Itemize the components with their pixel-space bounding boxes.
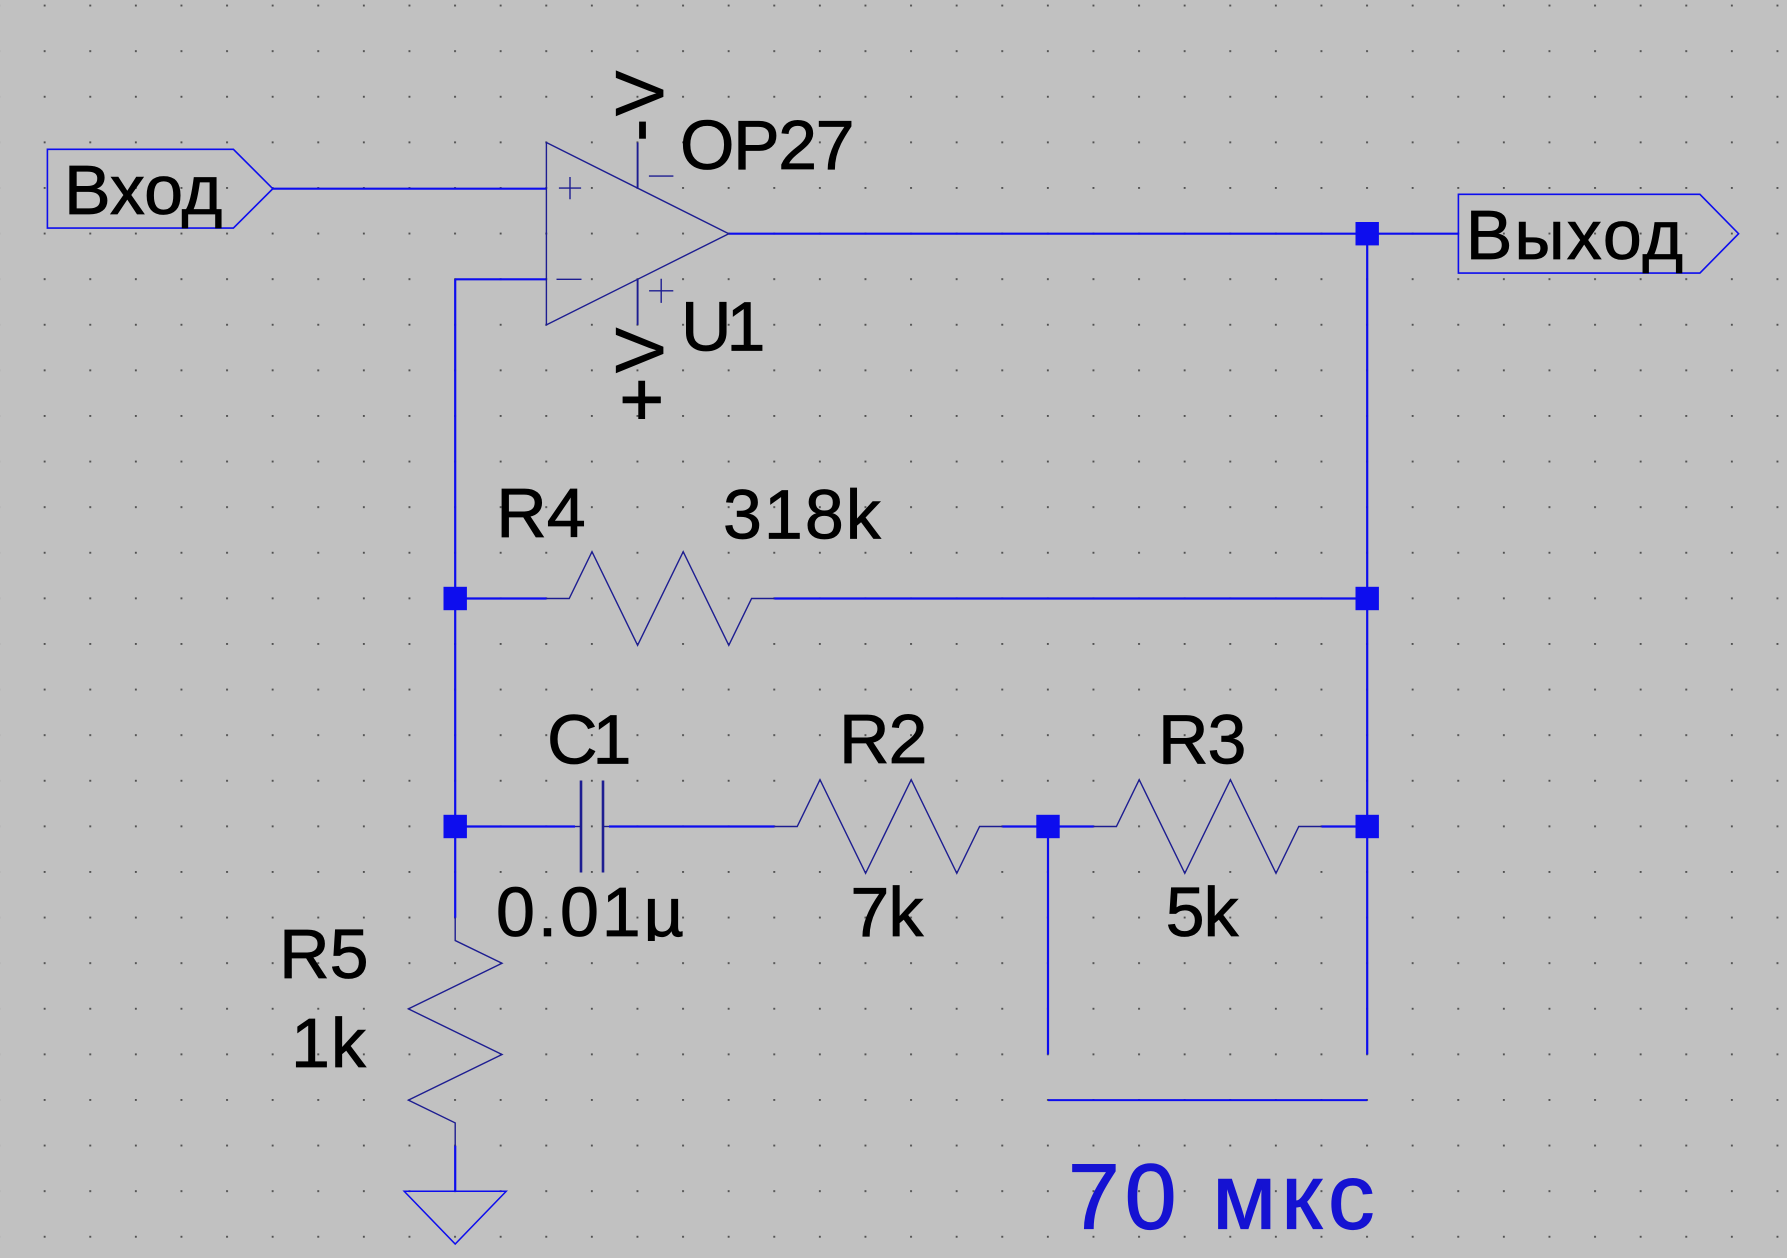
- wire: left vertical feedback bus x=455: [454, 279, 456, 917]
- op-amp U1 triangle body: [546, 143, 728, 325]
- svg-text:Выход: Выход: [1466, 196, 1685, 274]
- svg-text:70 мкс: 70 мкс: [1068, 1145, 1379, 1249]
- wire: R5 bottom lead to ground: [454, 1146, 456, 1192]
- op-amp V- pin name marker -: [649, 175, 674, 177]
- resistor R2: [774, 780, 1002, 874]
- annotation bracket line (70 мкс measure): [1048, 1099, 1367, 1101]
- wire: op-amp output to output port: [729, 233, 1459, 235]
- op-amp V+ pin name marker +: [649, 279, 673, 303]
- op-amp inverting input marker -: [557, 278, 582, 280]
- label -V (rotated) on top power pin: [602, 70, 678, 139]
- svg-text:R3: R3: [1158, 700, 1245, 778]
- svg-text:1k: 1k: [291, 1004, 367, 1082]
- svg-text:C1: C1: [547, 701, 629, 779]
- svg-text:0.01µ: 0.01µ: [496, 873, 687, 951]
- op-amp V- power pin: [637, 143, 639, 189]
- junction: R2-R3 node: [1036, 815, 1059, 838]
- junction: left bus / R4: [444, 587, 467, 610]
- svg-text:R2: R2: [839, 700, 926, 778]
- wire: C1 to R2: [609, 825, 774, 827]
- wire: feedback horizontal to op-amp inverting input: [455, 278, 546, 280]
- svg-text:R5: R5: [279, 915, 368, 993]
- label C1 value 0.01µ: [496, 873, 687, 951]
- svg-text:7k: 7k: [850, 873, 924, 951]
- svg-text:318k: 318k: [723, 475, 883, 553]
- resistor R5: [408, 918, 502, 1146]
- svg-text:5k: 5k: [1166, 873, 1240, 951]
- svg-text:Вход: Вход: [64, 151, 222, 229]
- capacitor C1: [575, 781, 609, 873]
- ground symbol: [404, 1191, 506, 1244]
- svg-text:U1: U1: [681, 287, 763, 365]
- wire: R4 right lead to right bus: [774, 597, 1367, 599]
- svg-text:V: V: [602, 327, 678, 373]
- label +V (rotated) on bottom power pin: [602, 327, 678, 419]
- op-amp V+ power pin: [637, 279, 639, 325]
- wire: R3 to right bus: [1322, 825, 1368, 827]
- svg-text:OP27: OP27: [680, 106, 853, 184]
- wire: right vertical bus x=1367: [1366, 234, 1368, 1055]
- junction: right bus / R3: [1356, 815, 1379, 838]
- junction: left bus / C1: [444, 815, 467, 838]
- op-amp non-inverting input marker +: [559, 177, 581, 199]
- svg-text:V: V: [602, 70, 678, 116]
- wire: R2 to R3 through middle node: [1002, 825, 1093, 827]
- input port Вход: [47, 149, 272, 229]
- wire: R4 left lead to left bus: [455, 597, 546, 599]
- wire: left bus to C1: [455, 825, 575, 827]
- resistor R4: [546, 552, 774, 646]
- wire: input port to op-amp non-inverting input: [273, 188, 547, 190]
- wire: middle vertical drop x=1048: [1047, 827, 1049, 1055]
- resistor R3: [1094, 780, 1322, 874]
- junction: right bus / R4: [1356, 587, 1379, 610]
- junction: output node: [1356, 222, 1379, 245]
- svg-text:R4: R4: [496, 474, 585, 552]
- output port Выход: [1458, 194, 1738, 273]
